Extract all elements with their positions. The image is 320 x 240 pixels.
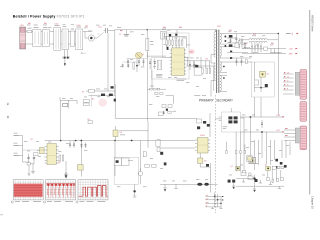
capacitor C610 xyxy=(149,59,151,70)
ground above scope2 xyxy=(64,172,68,178)
ground GND R805 xyxy=(27,165,30,175)
wire bottom rail xyxy=(160,183,218,185)
input stubs CN602 xyxy=(14,136,19,156)
transistor Q804 xyxy=(198,158,203,163)
scope borders xyxy=(13,180,108,200)
IC601 PWM controller xyxy=(170,48,186,76)
svg-text:Beistell / Power Supply F97023: Beistell / Power Supply F97023 SP3 IP1 xyxy=(13,14,85,18)
ground GND Q712 xyxy=(242,179,272,185)
svg-text:A1: A1 xyxy=(92,97,94,100)
capacitor C611 xyxy=(154,59,156,70)
transistor Q802 xyxy=(113,126,118,141)
ground GND bottom left xyxy=(163,184,167,191)
transformer T601 secondary winding 3 xyxy=(220,62,227,72)
svg-text:12: 12 xyxy=(287,76,289,78)
secondary mid verticals xyxy=(226,132,245,172)
relay RY601 coil box xyxy=(86,89,115,95)
svg-text:IC601: IC601 xyxy=(189,51,194,53)
capacitor C806 xyxy=(73,141,75,149)
secondary stub wires xyxy=(227,38,248,52)
ground above scope1 xyxy=(31,168,35,174)
svg-text:R2: R2 xyxy=(31,139,33,141)
label smudge Q802 xyxy=(120,134,125,137)
resistor R610 xyxy=(157,60,161,70)
svg-text:L602: L602 xyxy=(55,24,59,26)
resistor R625 xyxy=(202,68,204,74)
transistor Q705 xyxy=(236,166,240,170)
plug pins P601 xyxy=(63,50,70,59)
capacitor C621 xyxy=(194,61,196,70)
bridge note text xyxy=(223,126,228,128)
diode D806 xyxy=(204,183,208,186)
ground GND D707 xyxy=(232,183,235,189)
connector housing gray CN701 xyxy=(295,72,300,95)
filter box CX602 xyxy=(62,29,68,50)
resistor R747 xyxy=(281,178,283,181)
aux wires cluster xyxy=(60,97,77,109)
TL431 U701 xyxy=(260,71,266,77)
capacitor C603 xyxy=(104,28,108,33)
ground GND bottom mid xyxy=(174,184,178,188)
wire +B vertical xyxy=(277,34,279,116)
wire IC2 input xyxy=(23,149,45,151)
wire IC2 gnd xyxy=(64,161,67,177)
title text: Beistell / Power Supply F97023 SP3 xyxy=(13,14,85,18)
secondary filter caps under inductor xyxy=(251,43,274,53)
diode D710 xyxy=(265,84,268,87)
output wire +12V run xyxy=(240,115,285,118)
diode D712 xyxy=(280,162,283,165)
label smudges IC1 lower area xyxy=(168,77,206,87)
transistor Q601 xyxy=(135,52,142,58)
wire standby bus vertical xyxy=(60,100,62,141)
wire bias return xyxy=(210,81,212,92)
svg-text:C5: C5 xyxy=(119,34,121,36)
bridge rectifier box xyxy=(215,108,241,132)
scope graticule 1 xyxy=(13,180,43,200)
CN703 red pin labels xyxy=(285,128,288,136)
svg-text:Q8: Q8 xyxy=(120,132,122,134)
resistor R620 xyxy=(166,37,168,46)
resistor R745 xyxy=(267,178,269,181)
annotation highlight ellipse xyxy=(98,99,107,107)
diode D621 xyxy=(169,34,171,36)
bridge stubs xyxy=(219,117,244,121)
diode D804 xyxy=(206,164,209,167)
scope3 waveform square xyxy=(79,186,108,197)
scope3 caption xyxy=(76,201,106,203)
wire vertical bus B xyxy=(114,30,116,95)
relay contact S601 xyxy=(94,33,103,39)
resistor R606 box xyxy=(160,31,166,39)
wire aux bus xyxy=(127,58,148,60)
transformer T601 primary winding xyxy=(211,30,216,57)
caps bank under HV bus xyxy=(127,59,129,67)
control box internal rail xyxy=(164,33,187,48)
output label GND xyxy=(289,53,298,56)
diode D715 xyxy=(255,179,258,182)
diode D706 xyxy=(228,180,231,183)
note text rows primary xyxy=(177,79,206,96)
resistor R730 xyxy=(226,151,228,154)
capacitor C605 stub xyxy=(124,30,129,36)
junction node secondary gnd xyxy=(253,177,255,179)
resistor R810 xyxy=(88,121,92,124)
common-mode choke LF602 xyxy=(54,25,61,50)
resistor R626 xyxy=(206,68,208,74)
diode D722 xyxy=(234,116,238,119)
diode D611 xyxy=(109,94,113,96)
capacitor C620 xyxy=(189,61,191,70)
resistor R744 xyxy=(281,166,284,168)
wire N line xyxy=(26,43,80,45)
diode D625 xyxy=(195,65,199,68)
svg-text:IC7: IC7 xyxy=(267,74,270,76)
diode D610 xyxy=(101,94,105,96)
diode D721 xyxy=(228,116,232,119)
wire secondary +B bus xyxy=(240,33,279,35)
resistor R743 xyxy=(277,166,280,168)
resistor R720 xyxy=(241,172,246,176)
connector CN702 pink xyxy=(300,102,307,122)
transformer core laminations xyxy=(217,31,219,91)
node N1 junction xyxy=(123,59,138,72)
left margin fold marks xyxy=(6,103,9,119)
right margin rotated text: HR2500 Serie xyxy=(311,15,315,32)
svg-text:ac5: ac5 xyxy=(206,195,209,197)
wire HV top bus xyxy=(115,29,216,31)
diode D801 xyxy=(78,165,84,171)
snubber box outline xyxy=(252,62,275,97)
resistor R622 xyxy=(172,37,174,46)
resistor R630 box xyxy=(83,95,92,106)
inductor L701 xyxy=(240,38,278,42)
red designator smudges secondary xyxy=(229,30,274,44)
transformer T601 secondary winding 2 xyxy=(220,47,227,58)
connector housing gray CN703 xyxy=(295,128,300,143)
wire secondary lower rail xyxy=(242,49,286,54)
bulk capacitor C606 xyxy=(146,29,154,58)
wire IC603 to bottom rail xyxy=(200,153,210,184)
wire snubber to output xyxy=(255,97,262,117)
capacitor C608 xyxy=(127,64,129,68)
resistor R805 xyxy=(27,162,30,174)
capacitor C708 xyxy=(236,58,238,66)
ground C801 C802 xyxy=(29,164,35,168)
diode D707 xyxy=(232,180,235,183)
scope2 waveform spikes xyxy=(46,183,75,197)
wire D801 feed vertical xyxy=(80,140,82,177)
diode D622 xyxy=(175,34,177,36)
capacitor C808 xyxy=(85,143,87,149)
capacitor C704 xyxy=(254,43,256,52)
winding3 rectifier row xyxy=(227,57,252,66)
label smudges IC2 area xyxy=(24,141,87,157)
scope1 caption xyxy=(11,201,41,203)
PRIMARY SECONDARY labels xyxy=(199,99,234,103)
svg-text:Q9: Q9 xyxy=(204,161,206,163)
diode D724 xyxy=(234,120,238,123)
transformer T601 secondary winding 4 xyxy=(220,76,227,93)
label smudges relay and mid area xyxy=(62,59,159,105)
scope graticule 2 xyxy=(46,180,76,200)
resistor R608 xyxy=(133,62,135,69)
wire transformer top to bus xyxy=(215,30,217,32)
label smudges control area xyxy=(153,38,199,67)
label smudges secondary xyxy=(228,31,273,56)
resistor R746 xyxy=(276,178,278,181)
transistor Q801 xyxy=(37,148,44,154)
wire centre verticals xyxy=(115,121,148,184)
wire IC603 feed lines xyxy=(160,141,195,149)
svg-text:gnd: gnd xyxy=(206,202,209,204)
connector J601 (mains inlet) xyxy=(20,27,26,49)
transistor Q710 xyxy=(249,157,255,163)
primary/secondary dashed separator xyxy=(214,95,216,213)
resistor R806 under Q801 xyxy=(34,153,39,156)
ground GND1 xyxy=(81,52,87,53)
wire vertical bus A xyxy=(107,33,109,91)
resistor R731 xyxy=(235,151,237,154)
resistor R706 xyxy=(246,60,248,64)
diode D620 xyxy=(167,47,169,50)
resistor R721 xyxy=(248,176,253,180)
diode D714 xyxy=(275,166,278,169)
resistor R710 xyxy=(255,80,259,85)
transistor Q803 xyxy=(133,168,142,193)
connector CN701 pink xyxy=(300,70,307,100)
transformer T601 bias winding xyxy=(211,63,215,81)
plug cord arrow xyxy=(64,59,66,67)
wire snubber bus xyxy=(147,55,166,57)
label IC601 xyxy=(189,49,195,54)
scope graticule 3 xyxy=(78,180,108,200)
capacitor C702 xyxy=(230,38,232,43)
input stub labels xyxy=(14,133,18,154)
wire aux rail to IC603 xyxy=(115,112,197,118)
optocoupler PC802 xyxy=(143,140,166,165)
resistor R704 xyxy=(241,38,243,49)
wire drain vertical xyxy=(146,52,148,80)
resistor R621 xyxy=(169,37,171,46)
scope1 waveform red band xyxy=(14,184,43,197)
label smudges bottom xyxy=(117,158,265,187)
resistor R742 xyxy=(272,166,276,169)
page fold mark bottom left xyxy=(0,213,3,216)
diode D612 xyxy=(111,86,114,88)
output wire -12V run xyxy=(240,130,285,133)
transistor Q712 xyxy=(266,166,271,170)
wires right of IC601 xyxy=(186,57,214,91)
diode D703 xyxy=(230,51,232,53)
svg-text:J601: J601 xyxy=(20,25,24,27)
regulator box IC704 xyxy=(247,156,253,162)
wire L line xyxy=(26,31,92,33)
IC603 comparator xyxy=(195,138,210,154)
diode D723 xyxy=(228,120,232,123)
capacitor C706 xyxy=(260,43,262,52)
capacitor C635 xyxy=(163,111,165,114)
label smudges secondary mid xyxy=(242,115,289,164)
connector pin rows with arrows xyxy=(283,72,294,94)
capacitor C807 xyxy=(81,143,83,149)
svg-text:Chapter 10: Chapter 10 xyxy=(311,196,315,209)
startup box outline xyxy=(114,158,156,185)
snubber RC box xyxy=(194,68,202,75)
inductor L703 xyxy=(271,52,282,53)
capacitor C633 xyxy=(143,59,145,67)
capacitor C802 xyxy=(33,154,35,164)
ladder junction ticks xyxy=(214,196,223,204)
ground ladder left xyxy=(211,207,214,209)
diode D701 xyxy=(227,34,240,38)
svg-text:Q8: Q8 xyxy=(58,162,60,164)
svg-text:Q1: Q1 xyxy=(142,54,144,56)
right margin rotated text bottom: Chapter 10 xyxy=(311,196,315,209)
ground GND Q803 xyxy=(133,193,137,198)
wire vertical to rectifier xyxy=(108,30,115,32)
CN703 pin stubs xyxy=(284,130,295,141)
capacitor C607 xyxy=(122,64,124,68)
right margin rule xyxy=(309,10,311,195)
transformer T601 core xyxy=(217,30,219,94)
resistor R631 xyxy=(168,111,171,113)
svg-text:PRIMARY: PRIMARY xyxy=(199,99,215,103)
transformer polarity dots xyxy=(223,36,226,79)
resistor R705 xyxy=(244,43,246,49)
output label +15V xyxy=(289,48,298,51)
connector ladder CN604 xyxy=(206,184,223,208)
capacitor C712 xyxy=(261,120,263,128)
thermistor TH601 xyxy=(85,32,94,42)
capacitor C707 xyxy=(270,49,272,54)
wire input column xyxy=(19,136,31,163)
value label smudges top chain xyxy=(27,24,170,44)
wire drain vertical extension xyxy=(147,70,152,121)
capacitor C703 xyxy=(251,43,253,52)
wire standby bus horizontal xyxy=(45,140,161,142)
capacitor C701 xyxy=(235,34,237,43)
ground ladder right xyxy=(220,207,223,209)
resistor R628 xyxy=(181,37,183,46)
resistor R740 xyxy=(242,171,245,173)
svg-text:IC603: IC603 xyxy=(200,135,205,137)
wire relay rail vertical xyxy=(114,84,116,112)
transformer T601 secondary winding 1 xyxy=(220,34,227,45)
resistor R627 xyxy=(209,68,210,74)
box upper right of Q802 xyxy=(158,112,163,116)
capacitor C805 xyxy=(69,141,71,149)
control box outline xyxy=(152,33,189,79)
diode D704 xyxy=(230,57,232,59)
svg-text:rly: rly xyxy=(206,204,208,207)
IC602 standby controller xyxy=(45,144,59,165)
resistor R741 xyxy=(248,173,251,175)
svg-text:Q7: Q7 xyxy=(231,166,233,168)
wire snubber verticals xyxy=(255,62,269,92)
diode D702 xyxy=(227,44,240,47)
node junction snubber xyxy=(260,87,262,89)
resistor R601 xyxy=(70,29,74,47)
wire Q802 collector xyxy=(119,130,148,132)
choke L603 xyxy=(76,27,83,50)
capacitor C801 xyxy=(27,154,29,164)
label smudge aux xyxy=(173,110,177,113)
capacitor C630 xyxy=(127,59,129,67)
resistor R733 xyxy=(244,151,246,154)
svg-text:L603: L603 xyxy=(77,25,81,27)
resistor R703 xyxy=(238,38,240,49)
capacitor C709 xyxy=(241,58,243,66)
bottom right cluster wires xyxy=(236,170,284,187)
svg-text:HR2500 Serie: HR2500 Serie xyxy=(311,15,315,32)
resistor R623 xyxy=(175,37,177,46)
diode D711 xyxy=(275,159,278,162)
IC603 error amp area components xyxy=(197,113,211,137)
connector CN703 pink xyxy=(300,126,307,150)
scope2 caption xyxy=(44,201,74,203)
wire resistor commons xyxy=(167,45,180,48)
optocoupler PC801 xyxy=(114,158,133,166)
note text block xyxy=(156,74,163,78)
ground GND sec1 xyxy=(253,186,256,192)
capacitor C740 xyxy=(272,179,274,182)
fuse F601 xyxy=(27,28,32,33)
resistor R701 box xyxy=(235,43,239,48)
capacitor CX601 box xyxy=(42,27,50,46)
svg-text:ac9: ac9 xyxy=(206,198,209,200)
wire core bottom stubs xyxy=(210,54,212,96)
svg-text:SECONDARY: SECONDARY xyxy=(216,99,233,103)
resistor R732 xyxy=(240,151,242,154)
diode D614 xyxy=(114,99,116,102)
wire IC supply xyxy=(176,30,178,33)
svg-text:RY1: RY1 xyxy=(99,27,102,29)
resistor R803 xyxy=(59,155,64,161)
filter box LF601 xyxy=(33,27,41,46)
capacitor C632 xyxy=(138,59,140,67)
inductor L702 xyxy=(244,48,259,54)
svg-text:R6: R6 xyxy=(206,58,208,60)
secondary feedback verticals xyxy=(244,117,290,172)
diode D805 xyxy=(197,183,202,186)
diode D713 xyxy=(284,165,287,168)
resistor R624 xyxy=(178,37,180,46)
current sense resistors cluster xyxy=(147,88,173,103)
output label +B xyxy=(286,33,299,36)
diode D630 xyxy=(197,126,200,129)
capacitor C705 xyxy=(257,43,259,52)
svg-text:T601: T601 xyxy=(217,26,221,28)
ground GND sec2 xyxy=(278,186,281,188)
red designator smudges top chain xyxy=(28,23,182,31)
gate drive parts xyxy=(162,105,172,111)
resistor R702 xyxy=(264,47,268,50)
